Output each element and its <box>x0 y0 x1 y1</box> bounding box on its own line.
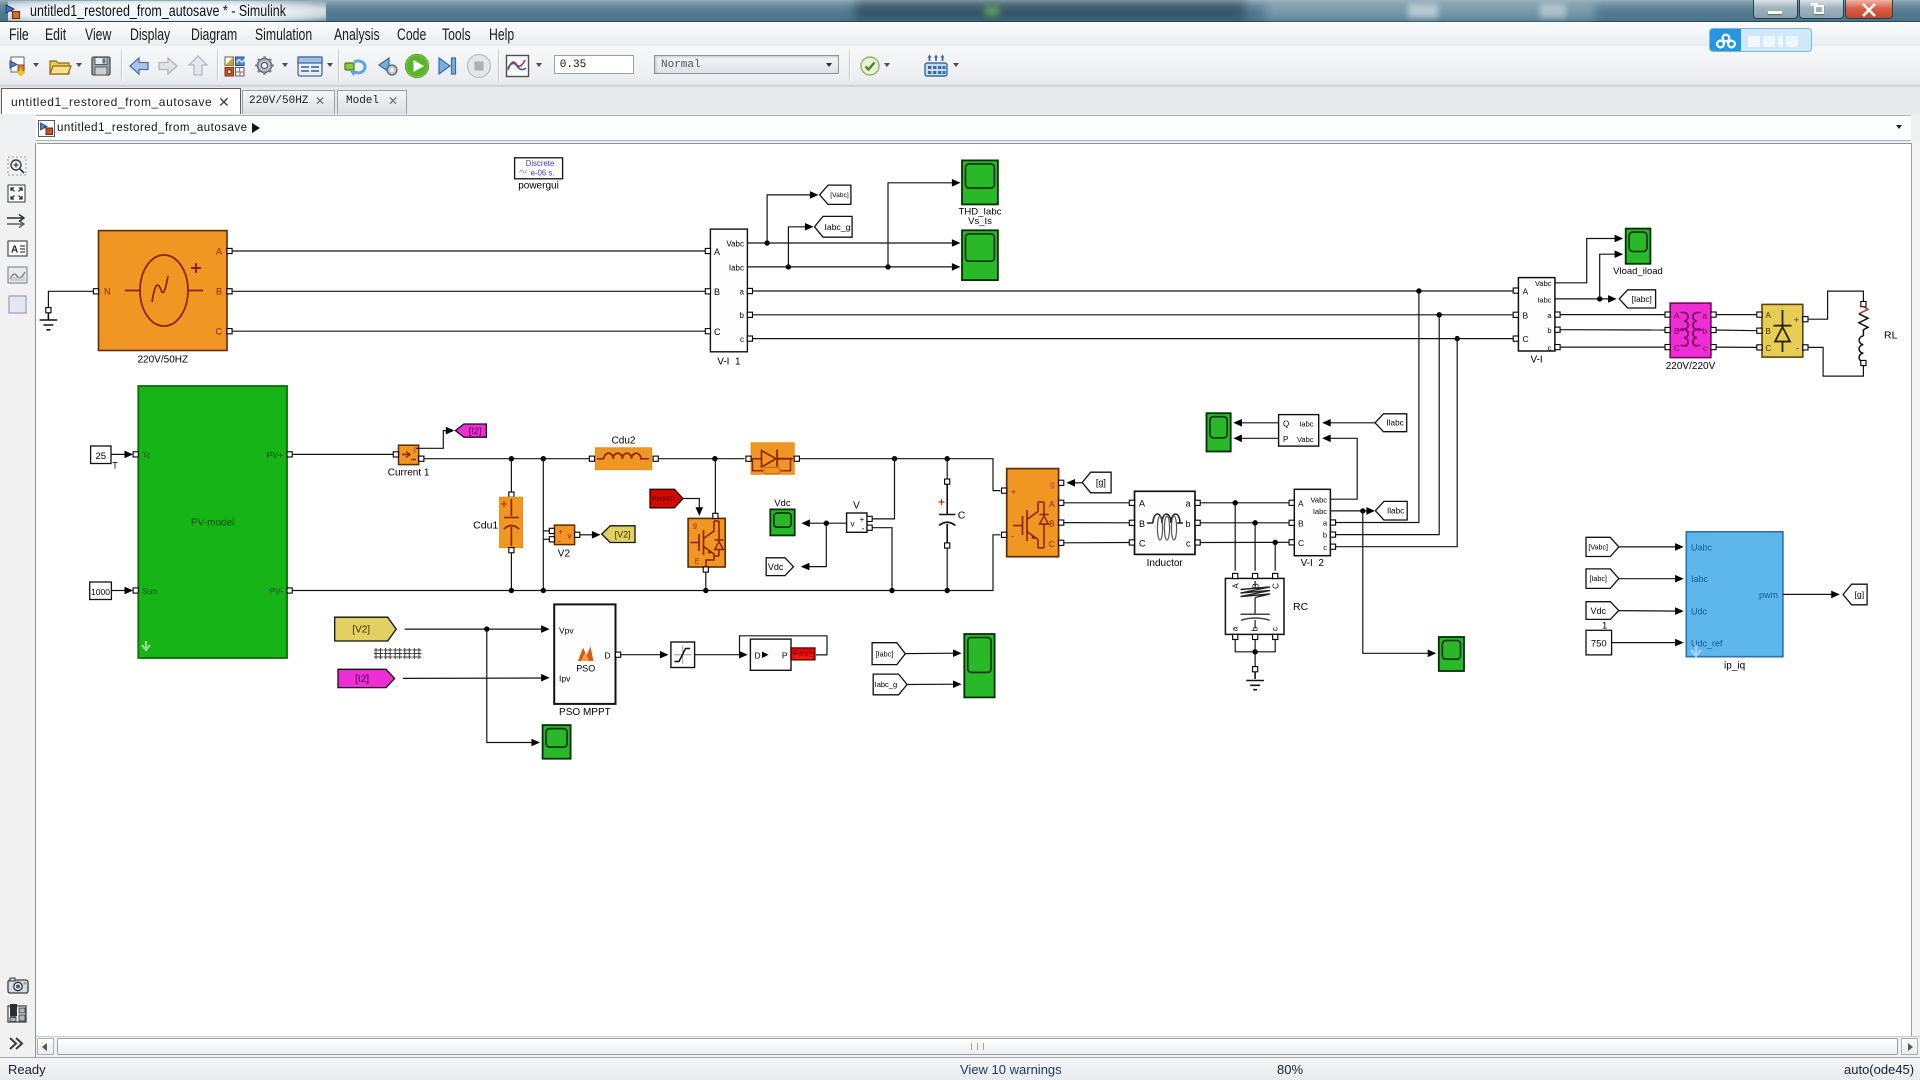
toolbar: save <box>90 54 112 78</box>
model tabs <box>0 86 1920 114</box>
svg-text:Vdc: Vdc <box>774 498 791 509</box>
svg-text:+: + <box>860 515 865 524</box>
stub V2 minus <box>543 538 549 540</box>
toolbar: up (disabled) <box>187 54 209 77</box>
goto tag [V2] <box>602 526 635 543</box>
svg-text:1: 1 <box>1602 621 1607 632</box>
svg-text:b: b <box>1703 327 1708 336</box>
svg-text:v: v <box>568 531 572 540</box>
PQ measurement block <box>1279 415 1319 447</box>
svg-text:220V/220V: 220V/220V <box>1666 361 1716 372</box>
wire tap b to RC <box>1254 523 1256 571</box>
svg-text:b: b <box>1547 326 1551 335</box>
powergui block <box>515 158 563 192</box>
wire inverter A to inductor <box>1064 502 1130 504</box>
toolbar: sim time field <box>554 55 634 74</box>
svg-text:D: D <box>755 650 761 660</box>
wire rail to Cdu1 <box>510 459 512 492</box>
scope PQ <box>1207 413 1231 451</box>
wire Iabc to Vs_Is scope <box>747 263 960 271</box>
svg-text:Sun: Sun <box>142 586 157 596</box>
svg-text:+: + <box>558 527 563 536</box>
svg-text:Ilabc: Ilabc <box>1386 419 1403 428</box>
inductor Cdu2 <box>589 436 658 470</box>
svg-text:[I2]: [I2] <box>469 426 482 436</box>
svg-text:i: i <box>414 446 416 455</box>
svg-text:B: B <box>1298 518 1304 528</box>
scope Vdc <box>770 498 794 535</box>
svg-text:-: - <box>558 536 561 545</box>
svg-text:T: T <box>112 461 118 471</box>
wire tap c to RC <box>1274 542 1276 570</box>
svg-text:A: A <box>1523 286 1529 296</box>
svg-text:C: C <box>1139 538 1146 548</box>
svg-text:Vdc: Vdc <box>1590 606 1606 616</box>
svg-text:P: P <box>1283 435 1288 444</box>
wire Iabc junction <box>1555 295 1617 303</box>
svg-text:b: b <box>1185 519 1190 529</box>
svg-text:Vpv: Vpv <box>559 625 574 635</box>
window title bar <box>0 0 1920 22</box>
wire RC a down <box>1235 640 1275 655</box>
wire V2 branch to scope <box>487 629 540 746</box>
wire inductor b to V-I2 <box>1200 520 1289 525</box>
constant 25 (T) <box>91 446 119 471</box>
V-I 1 measurement block <box>705 229 752 367</box>
voltage sensor V <box>847 501 873 533</box>
window buttons min/max/close <box>1753 0 1798 19</box>
svg-text:c: c <box>1323 543 1327 552</box>
svg-text:B: B <box>1139 519 1145 529</box>
wire rect plus to RL <box>1808 291 1863 319</box>
svg-text:Iabc: Iabc <box>1313 507 1327 516</box>
svg-text:A: A <box>1298 498 1304 508</box>
three-phase inductor L1 <box>1129 491 1200 569</box>
svg-text:Vdc: Vdc <box>768 562 784 572</box>
svg-text:B: B <box>1523 310 1529 320</box>
wire xfmr c to rectifier <box>1716 346 1757 348</box>
svg-text:[Iabc]: [Iabc] <box>1589 575 1606 583</box>
svg-text:a: a <box>1231 626 1240 631</box>
wire b to transformer <box>1560 329 1665 331</box>
svg-text:C: C <box>1049 540 1055 549</box>
svg-text:a: a <box>1703 311 1708 320</box>
svg-text:PSO: PSO <box>576 664 595 674</box>
svg-text:b: b <box>1323 531 1327 540</box>
capacitor Cdu1 <box>473 492 522 553</box>
svg-text:E: E <box>695 559 700 566</box>
svg-text:b: b <box>740 311 745 320</box>
diode D1 <box>746 443 800 475</box>
svg-text:Current 1: Current 1 <box>388 468 430 479</box>
svg-text:A: A <box>1766 311 1772 320</box>
from tag [I2] pso <box>338 669 395 687</box>
svg-text:Iabc: Iabc <box>1691 574 1709 584</box>
svg-text:RC: RC <box>1293 601 1309 613</box>
svg-text:-: - <box>1796 343 1799 353</box>
wire PWM feedback loop <box>740 636 828 655</box>
svg-text:powergui: powergui <box>518 181 559 192</box>
left palette <box>0 143 36 1057</box>
scope Vload_iload <box>1613 229 1663 277</box>
svg-text:C: C <box>958 509 966 521</box>
svg-text:[Vabc]: [Vabc] <box>830 192 849 199</box>
ground G2 <box>1246 667 1264 690</box>
svg-text:A: A <box>216 247 222 257</box>
svg-text:pwm: pwm <box>1759 590 1778 600</box>
svg-text:25: 25 <box>96 451 107 462</box>
wire Ilabc to PQ <box>1322 419 1375 427</box>
svg-text:+: + <box>1011 487 1016 497</box>
svg-text:PV+: PV+ <box>267 450 283 460</box>
rail phase b <box>753 312 1514 317</box>
svg-text:PV-model: PV-model <box>191 518 234 529</box>
goto tag [Vabc] <box>820 185 851 204</box>
svg-text:B: B <box>714 287 720 297</box>
voltage sensor V2 <box>549 525 580 559</box>
V-I 2 measurement block <box>1289 489 1336 569</box>
svg-text:[Vabc]: [Vabc] <box>1588 544 1608 552</box>
wire Q to PQ scope <box>1233 419 1278 427</box>
wire Iabc to goto Ilabc <box>1330 507 1375 515</box>
svg-text:C: C <box>1272 583 1281 589</box>
wire I2 to Ipv <box>403 674 550 682</box>
goto tag Iabc_g <box>815 216 853 237</box>
svg-text:PV-: PV- <box>269 586 283 596</box>
svg-text:Iabc_g: Iabc_g <box>824 222 850 232</box>
saturation block <box>671 642 695 668</box>
svg-text:Vload_iload: Vload_iload <box>1613 266 1663 277</box>
svg-text:a: a <box>1185 498 1190 508</box>
rectifier bridge <box>1757 304 1808 357</box>
from tag Iabc_g scope <box>873 674 907 695</box>
breadcrumb bar <box>0 114 1920 143</box>
goto tag Vdc <box>766 558 793 576</box>
svg-text:B: B <box>1766 327 1771 336</box>
svg-text:e-06 s.: e-06 s. <box>531 168 555 177</box>
goto tag [I2] <box>455 424 486 437</box>
svg-text:750: 750 <box>1591 639 1607 650</box>
svg-text:220V/50HZ: 220V/50HZ <box>138 355 189 366</box>
wire V2 to goto <box>580 531 601 539</box>
from tag Vdc ctrl <box>1586 602 1619 620</box>
wire Cdu1 to bottom rail <box>510 553 512 591</box>
svg-text:C: C <box>714 327 721 337</box>
toolbar: model settings <box>297 55 323 78</box>
wire RC b to ground <box>1254 640 1256 667</box>
svg-text:A: A <box>1674 311 1680 320</box>
svg-text:Tc: Tc <box>142 450 151 460</box>
wire Vabc to Vload scope <box>1555 235 1623 283</box>
ground G1 <box>40 308 58 330</box>
svg-text:g: g <box>1050 480 1054 489</box>
wire V-I2 b up to rail <box>1336 315 1440 535</box>
toolbar <box>0 46 1920 86</box>
toolbar: forward (disabled) <box>157 55 179 77</box>
svg-text:c: c <box>740 335 744 344</box>
load RL <box>1859 302 1898 366</box>
toolbar: build <box>923 54 949 78</box>
wire inductor a to V-I2 <box>1200 500 1289 505</box>
stub V2 plus <box>543 530 549 532</box>
wire phase B source to V-I1 <box>232 290 705 292</box>
svg-text:g: g <box>693 523 697 530</box>
svg-text:C: C <box>216 327 223 337</box>
wire junction to Vdc goto <box>801 523 827 570</box>
toolbar: stop (disabled) <box>466 53 492 79</box>
wire Iabc to scope2 <box>905 649 961 657</box>
svg-text:A: A <box>1139 498 1145 508</box>
wire V plus to rail <box>872 459 894 519</box>
toolbar: step forward <box>436 55 458 77</box>
wire inverter B to inductor <box>1064 522 1130 524</box>
svg-text:Vabc: Vabc <box>1297 435 1314 444</box>
svg-text:[Iabc]: [Iabc] <box>876 649 894 658</box>
PWM generator block <box>750 639 791 670</box>
subsystem PSO MPPT <box>554 604 621 718</box>
wire C to bottom rail <box>946 548 948 591</box>
toolbar: new <box>8 55 30 77</box>
toolbar: run <box>404 53 430 79</box>
svg-text:Q: Q <box>1283 419 1289 428</box>
svg-text:A: A <box>714 247 720 257</box>
wire 25 to Tc <box>111 451 133 459</box>
wire xfmr a to rectifier <box>1716 314 1757 316</box>
goto tag [PWM2] out <box>791 648 815 660</box>
wire Vabc to Uabc <box>1619 543 1684 551</box>
svg-text:Discrete: Discrete <box>526 159 555 168</box>
svg-text:Uabc: Uabc <box>1691 543 1713 553</box>
menu bar <box>0 22 1920 46</box>
svg-text:ip_iq: ip_iq <box>1724 661 1745 672</box>
rail phase a <box>753 288 1514 293</box>
svg-text:C: C <box>1523 334 1529 344</box>
inverter bridge U1 <box>1002 469 1064 557</box>
wire pwm to goto g <box>1783 591 1840 599</box>
goto tag [g] <box>1843 584 1867 605</box>
current sensor Current 1 <box>388 445 430 478</box>
svg-text:c: c <box>1186 538 1191 548</box>
from tag [V2] pso <box>335 617 397 641</box>
svg-text:+: + <box>1794 315 1799 325</box>
top DC rail segment 3 <box>799 456 1000 491</box>
svg-text:B: B <box>1049 520 1054 529</box>
svg-text:P: P <box>782 650 788 660</box>
svg-text:[PWM2]: [PWM2] <box>649 494 675 503</box>
svg-text:Udc: Udc <box>1691 607 1708 617</box>
constant 1000 (Sun) <box>90 582 112 600</box>
svg-text:-: - <box>862 524 865 533</box>
wire c to transformer <box>1560 346 1665 348</box>
svg-text:[g]: [g] <box>1096 478 1106 488</box>
svg-text:Ipv: Ipv <box>559 674 571 684</box>
wire a to transformer <box>1560 314 1665 316</box>
svg-text:Cdu1: Cdu1 <box>473 519 498 531</box>
goto tag [Iabc] load <box>1619 290 1655 308</box>
wire Iabc_g to scope2 <box>907 680 962 688</box>
svg-text:-: - <box>1011 531 1014 541</box>
PV-model subsystem <box>133 386 292 658</box>
svg-text:C: C <box>1674 344 1680 353</box>
wire V-I2 a up to rail <box>1336 291 1419 523</box>
svg-text:C: C <box>1766 344 1772 353</box>
wire RL to rect minus <box>1808 347 1863 376</box>
top DC rail segment 2 <box>658 456 744 461</box>
controller ip_iq <box>1686 532 1783 672</box>
toolbar: data inspector <box>505 54 530 78</box>
wire IGBT emitter to rail <box>705 572 707 591</box>
transistor IGBT1 <box>688 513 725 572</box>
wire rail to C <box>946 459 948 479</box>
scope Iabc pair <box>964 634 994 697</box>
bottom DC rail <box>292 535 1000 593</box>
svg-text:V-I 2: V-I 2 <box>1301 558 1325 569</box>
svg-text:c: c <box>1548 343 1552 352</box>
svg-text:D: D <box>604 651 610 661</box>
wire DC tap vertical <box>542 459 544 591</box>
wire Iabc up to scope <box>1600 250 1624 299</box>
wire saturation to PWM <box>695 651 748 659</box>
wire g tag to inverter <box>1066 479 1082 487</box>
svg-text:Vabc: Vabc <box>1535 279 1552 288</box>
AC source 220V/50HZ <box>93 231 232 366</box>
wire v out to junction <box>824 521 847 526</box>
svg-text:Cdu2: Cdu2 <box>612 436 636 447</box>
toolbar: mode dropdown <box>654 55 839 74</box>
from tag [g] <box>1082 472 1111 493</box>
svg-text:Vs_Is: Vs_Is <box>968 216 992 227</box>
wire Iabc to ctrl <box>1619 575 1684 583</box>
svg-text:C: C <box>1298 538 1304 548</box>
svg-text:V2: V2 <box>558 549 571 560</box>
horizontal scrollbar <box>36 1036 1920 1057</box>
from tag [Iabc] ctrl <box>1586 569 1619 589</box>
toolbar: update diagram <box>344 55 369 78</box>
wire junction to Vdc scope <box>801 519 826 527</box>
constant 750 <box>1586 621 1612 655</box>
svg-text:[V2]: [V2] <box>615 529 631 539</box>
from tag Ilabc top <box>1375 414 1407 432</box>
svg-text:Vabc: Vabc <box>1310 495 1327 504</box>
wire Vabc to PQ <box>1322 435 1357 500</box>
svg-text:[Iabc]: [Iabc] <box>1632 294 1652 304</box>
wire V minus to bottom rail <box>872 528 892 591</box>
svg-text:N: N <box>104 287 111 297</box>
wire 1000 to Sun <box>111 587 133 595</box>
wire Vabc to Vs_Is scope <box>747 239 960 247</box>
toolbar: step back <box>376 55 400 78</box>
toolbar: library browser <box>223 55 246 78</box>
wire V-I2 c up to rail <box>1336 339 1458 547</box>
wire Vdc to Udc <box>1619 607 1684 615</box>
scope THD_Iabc <box>959 160 1002 227</box>
top DC rail segment 1 <box>424 456 589 461</box>
wire N to ground <box>48 291 93 307</box>
wire 750 to Udc_ref <box>1612 639 1684 647</box>
status bar <box>0 1057 1920 1080</box>
svg-text:Ilabc: Ilabc <box>1387 507 1404 516</box>
svg-text:PSO MPPT: PSO MPPT <box>559 707 611 718</box>
toolbar: check <box>860 56 880 76</box>
wire i out to goto I2 <box>416 427 454 449</box>
RC snubber block <box>1225 573 1308 639</box>
wire Vabc branch to goto <box>767 191 818 243</box>
from tag [Iabc] scope <box>872 643 905 665</box>
wire Iabc down to scope <box>1363 511 1437 657</box>
svg-text:[PWM2]: [PWM2] <box>792 653 814 659</box>
svg-text:B: B <box>1674 327 1679 336</box>
svg-text:[V2]: [V2] <box>352 625 370 636</box>
toolbar: open <box>48 55 72 77</box>
svg-text:A: A <box>1232 583 1241 589</box>
svg-text:V-I: V-I <box>1530 355 1542 366</box>
svg-text:Iabc_g: Iabc_g <box>875 680 898 689</box>
toolbar: gear <box>253 54 276 77</box>
svg-text:[g]: [g] <box>1854 590 1864 600</box>
transformer 220V/220V <box>1665 303 1716 372</box>
svg-text:A: A <box>1049 500 1055 509</box>
svg-text:V-I 1: V-I 1 <box>717 357 741 368</box>
wire PWM2 to gate <box>683 499 703 516</box>
scope Vs_Is <box>962 230 998 280</box>
svg-text:a: a <box>740 287 745 296</box>
svg-text:RL: RL <box>1884 330 1898 342</box>
wire P to PQ scope <box>1233 435 1278 443</box>
goto tag Ilabc <box>1375 501 1407 520</box>
wire inverter C to inductor <box>1064 542 1130 544</box>
svg-text:Inductor: Inductor <box>1147 558 1184 569</box>
V-I measurement block (load) <box>1513 278 1560 366</box>
scope V2 <box>543 725 571 759</box>
wire D to saturation <box>621 651 669 659</box>
wire tap a to RC <box>1234 503 1236 571</box>
svg-text:B: B <box>216 287 222 297</box>
svg-text:Iabc: Iabc <box>1299 419 1313 428</box>
svg-text:V: V <box>853 501 860 512</box>
wire Iabc branch to THD scope <box>888 179 961 267</box>
svg-text:[I2]: [I2] <box>355 674 369 685</box>
from tag [PWM2] <box>649 489 683 508</box>
svg-text:1000: 1000 <box>91 587 110 597</box>
capacitor C <box>939 479 966 548</box>
svg-text:v: v <box>851 519 855 528</box>
from tag [Vabc] ctrl <box>1586 537 1619 556</box>
wire Iabc branch to goto <box>788 223 813 267</box>
wire phase C source to V-I1 <box>232 330 705 332</box>
toolbar: back <box>128 55 150 77</box>
wire phase A source to V-I1 <box>232 250 705 252</box>
wire PV+ to Current1 <box>292 453 393 455</box>
svg-text:c: c <box>1703 344 1707 353</box>
simulink app icon <box>4 3 22 21</box>
wire xfmr b to rectifier <box>1716 329 1757 332</box>
wire IGBT collector to rail <box>714 459 716 514</box>
svg-text:Vabc: Vabc <box>726 239 744 248</box>
svg-text:c: c <box>1271 627 1280 631</box>
baidu netdisk overlay button <box>1709 28 1812 52</box>
wire V2 to Vpv <box>405 625 550 633</box>
scope Ilabc <box>1439 637 1464 671</box>
svg-text:Iabc: Iabc <box>1537 295 1551 304</box>
rail phase c <box>753 336 1514 341</box>
svg-text:Iabc: Iabc <box>729 263 744 272</box>
annotation PSO algorithm (chinese) <box>374 648 421 659</box>
wire inductor c to V-I2 <box>1200 540 1289 545</box>
